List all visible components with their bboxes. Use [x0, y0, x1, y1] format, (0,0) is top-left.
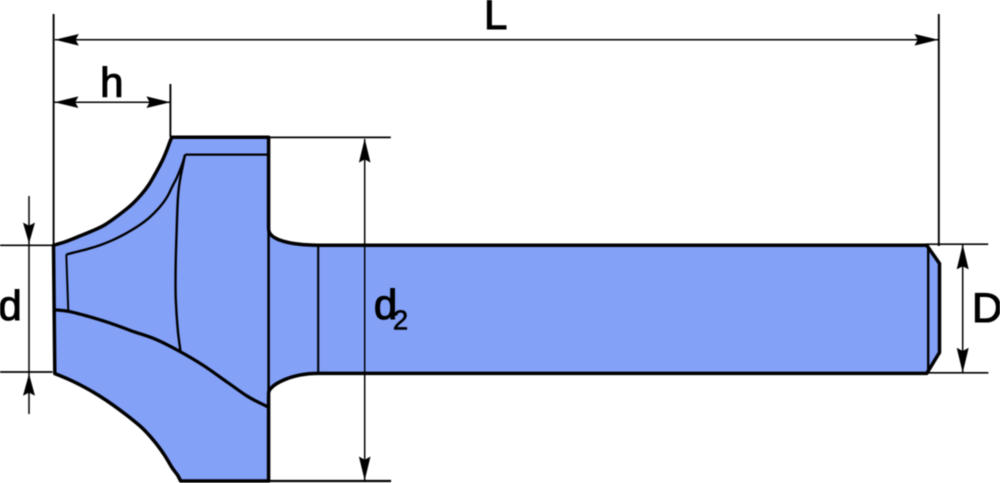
svg-text:D: D [972, 284, 1000, 331]
svg-text:d: d [0, 282, 22, 329]
svg-text:L: L [484, 0, 507, 38]
svg-text:2: 2 [393, 304, 408, 335]
svg-text:h: h [100, 59, 123, 106]
